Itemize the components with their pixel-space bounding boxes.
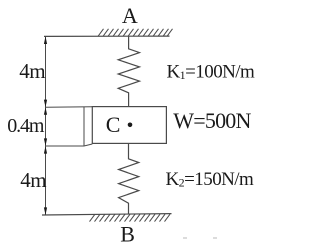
ground support line at B	[42, 214, 172, 215]
svg-text:4m: 4m	[19, 59, 45, 83]
ceiling hatching	[98, 29, 173, 37]
ground hatching	[90, 214, 171, 221]
mass block rectangle	[92, 107, 166, 144]
dimension label 4m lower	[20, 168, 46, 192]
node B label	[120, 222, 135, 244]
spring K1	[118, 36, 139, 106]
dimension label 0.4m	[7, 115, 45, 137]
dimension arrowheads	[44, 36, 47, 215]
node A label	[122, 3, 138, 28]
svg-text:B: B	[120, 222, 135, 244]
center dot of block	[128, 123, 133, 128]
svg-text:A: A	[122, 3, 138, 28]
spring K2	[119, 143, 139, 214]
svg-text:K2=150N/m: K2=150N/m	[166, 169, 255, 190]
label K1=100N/m	[167, 62, 256, 83]
ceiling support line at A	[44, 35, 170, 37]
svg-text:0.4m: 0.4m	[7, 115, 45, 137]
label C inside block	[106, 112, 121, 137]
faint scan specks bottom right	[183, 237, 217, 239]
label W=500N	[173, 108, 251, 133]
dimension line vertical	[45, 36, 47, 215]
svg-text:C: C	[106, 112, 121, 137]
svg-text:K1=100N/m: K1=100N/m	[167, 62, 256, 83]
extension line top of block to dimension line	[46, 106, 93, 108]
svg-text:W=500N: W=500N	[173, 108, 251, 133]
svg-text:4m: 4m	[20, 168, 46, 192]
extension line bottom of block to dimension line	[46, 144, 93, 146]
dimension label 4m upper	[19, 59, 45, 83]
label K2=150N/m	[166, 169, 255, 190]
extra vertical segment left of block	[83, 107, 85, 146]
